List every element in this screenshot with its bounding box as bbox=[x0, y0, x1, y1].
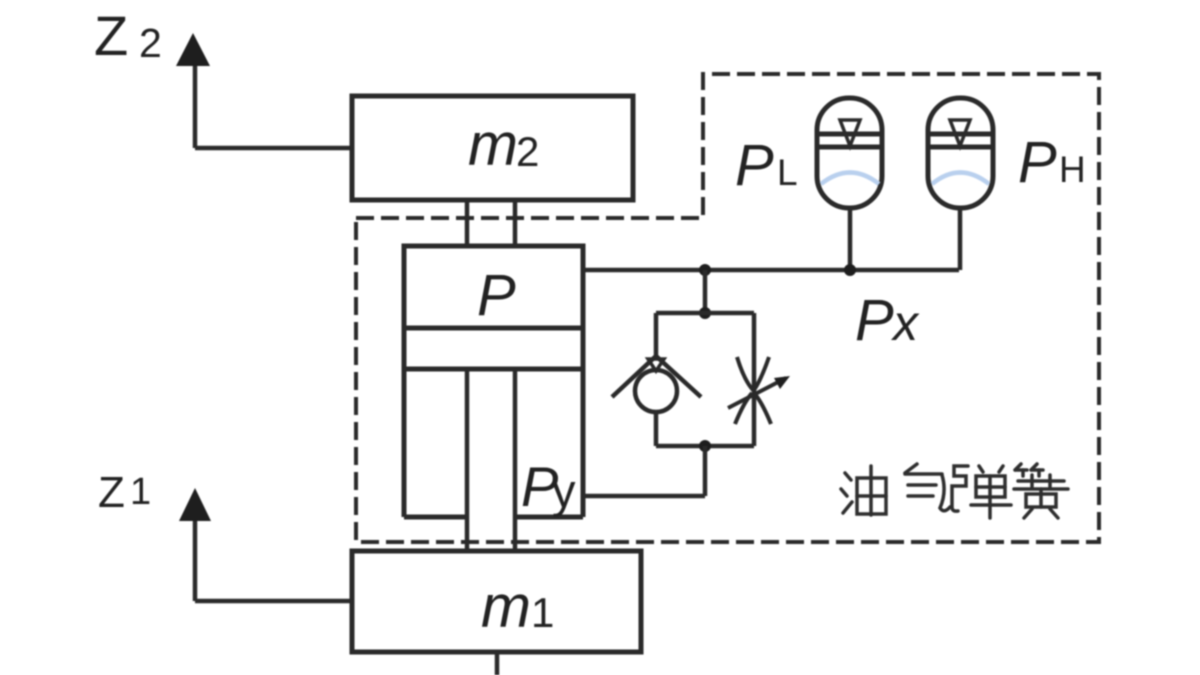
wire piston rod upper (m2 to cylinder) bbox=[467, 200, 515, 246]
node Px label bbox=[855, 288, 920, 353]
svg-text:Z: Z bbox=[94, 4, 128, 67]
mass m1 bbox=[352, 551, 641, 652]
char huang (reed) bbox=[1015, 464, 1021, 470]
wire Z2 arrow bbox=[195, 60, 354, 148]
svg-text:y: y bbox=[552, 464, 576, 517]
check valve V1 bbox=[612, 356, 701, 412]
cylinder body bbox=[404, 246, 583, 517]
wire junction down to valve block bbox=[703, 270, 708, 313]
node PL label bbox=[735, 133, 798, 198]
svg-text:2: 2 bbox=[139, 20, 162, 66]
svg-text:1: 1 bbox=[531, 589, 554, 636]
node z1 axis label bbox=[98, 468, 151, 517]
dashed boundary (hydro-pneumatic spring) bbox=[356, 74, 1099, 542]
wire z1 arrow bbox=[195, 515, 352, 601]
wire PL accumulator to bus bbox=[848, 208, 853, 270]
char dan (spring) bbox=[952, 466, 968, 511]
node junction PL on bus bbox=[844, 264, 856, 276]
svg-text:H: H bbox=[1059, 149, 1086, 190]
wire PH accumulator to bus bbox=[958, 208, 963, 270]
node PH label bbox=[1018, 130, 1086, 195]
wire below m1 bbox=[495, 652, 500, 675]
node Py chamber label bbox=[521, 455, 576, 518]
svg-text:P: P bbox=[1018, 130, 1057, 195]
accumulator PL bbox=[817, 98, 882, 208]
wire Py to valve block bottom bbox=[583, 446, 705, 496]
svg-text:1: 1 bbox=[130, 471, 151, 513]
label hydro-pneumatic spring (oil-gas spring) bbox=[841, 464, 1068, 518]
svg-text:P: P bbox=[855, 288, 894, 353]
wire P chamber to Px bus bbox=[583, 268, 959, 273]
char qi (gas) bbox=[905, 464, 917, 473]
throttle valve V2 bbox=[728, 357, 786, 424]
svg-text:m: m bbox=[468, 111, 518, 178]
svg-text:Z: Z bbox=[98, 468, 125, 517]
node junction at Px column bbox=[699, 264, 711, 276]
svg-text:P: P bbox=[735, 133, 774, 198]
svg-text:x: x bbox=[891, 295, 920, 351]
svg-text:m: m bbox=[481, 573, 531, 640]
wire piston rod lower (cylinder to m1) bbox=[467, 369, 515, 551]
accumulator PH bbox=[928, 98, 993, 208]
node junction at valve block bottom bbox=[699, 440, 711, 452]
node junction at valve block top bbox=[699, 307, 711, 319]
svg-text:P: P bbox=[477, 263, 516, 328]
node Z2 axis label bbox=[94, 4, 162, 67]
svg-text:L: L bbox=[777, 152, 798, 193]
char you (oil) bbox=[845, 473, 851, 480]
wire valve block frame bbox=[656, 313, 754, 446]
svg-text:2: 2 bbox=[516, 128, 539, 175]
mass m2 bbox=[352, 96, 633, 200]
